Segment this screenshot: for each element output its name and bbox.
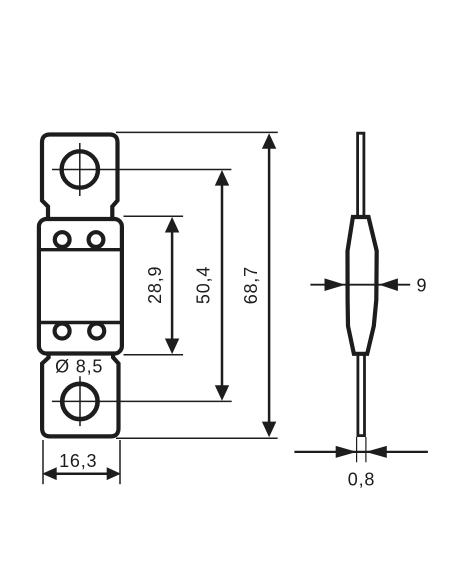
svg-text:68,7: 68,7 [241, 266, 261, 304]
svg-text:0,8: 0,8 [348, 469, 375, 489]
svg-text:9: 9 [416, 276, 427, 296]
svg-text:16,3: 16,3 [59, 451, 97, 471]
svg-text:Ø 8,5: Ø 8,5 [55, 357, 103, 377]
svg-text:50,4: 50,4 [194, 266, 214, 304]
svg-text:28,9: 28,9 [145, 266, 165, 304]
